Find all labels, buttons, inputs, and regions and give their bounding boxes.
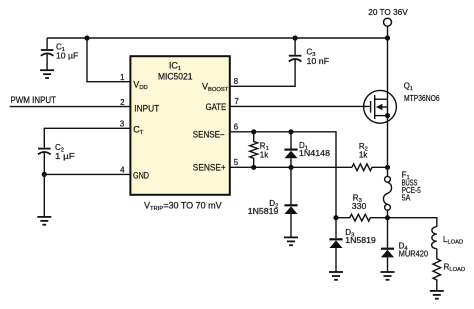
pin 6 SENSE- label <box>193 123 239 140</box>
svg-text:1k: 1k <box>359 150 368 159</box>
wire pin 8 VBOOST to C3 <box>231 59 296 86</box>
svg-text:PWM INPUT: PWM INPUT <box>11 95 57 105</box>
power terminal 20 TO 36V <box>368 7 408 38</box>
pin 1 VDD label <box>120 73 148 91</box>
svg-text:VTRIP=30 TO 70 mV: VTRIP=30 TO 70 mV <box>144 200 222 212</box>
wire pin 7 GATE to Q1 gate <box>231 105 370 107</box>
node R1 top junction <box>251 129 256 134</box>
node supply rail / drain junction <box>385 35 390 40</box>
wire C2 node to ground <box>43 174 45 217</box>
node PWM INPUT label <box>11 95 57 105</box>
svg-text:GND: GND <box>133 171 149 181</box>
svg-text:RLOAD: RLOAD <box>444 262 466 273</box>
wire pin 6 SENSE- to right column <box>231 132 337 218</box>
capacitor C2 <box>38 143 75 175</box>
svg-text:1N5819: 1N5819 <box>345 236 376 245</box>
svg-text:10 nF: 10 nF <box>307 56 330 66</box>
svg-text:1N4148: 1N4148 <box>299 149 331 158</box>
svg-text:INPUT: INPUT <box>134 104 159 114</box>
IC1 title label <box>158 61 193 82</box>
svg-text:330: 330 <box>352 201 367 211</box>
VTRIP note label <box>144 200 222 212</box>
resistor R2 <box>352 142 388 171</box>
pin 5 SENSE+ label <box>193 158 239 173</box>
svg-text:3: 3 <box>120 120 125 129</box>
op-amp U1 : IC1 MIC5021 body <box>130 56 229 195</box>
svg-text:GATE: GATE <box>206 102 227 112</box>
diode D4 MUR420 <box>381 218 429 272</box>
resistor R1 <box>250 132 270 168</box>
node F1 bottom / load junction <box>385 215 390 220</box>
node Q1 source junction <box>385 113 390 118</box>
svg-text:10 µF: 10 µF <box>56 50 78 60</box>
wire pin 3 to C2 <box>44 128 129 147</box>
inductor L_LOAD <box>432 227 464 249</box>
resistor R3 <box>336 194 388 222</box>
ground (R_LOAD) <box>430 291 444 299</box>
diode D3 1N5819 <box>329 218 376 272</box>
wire load branch <box>388 218 437 227</box>
ground (C2) <box>37 217 51 225</box>
wire pin 5 SENSE+ to R2 <box>231 166 353 168</box>
svg-text:4: 4 <box>120 166 125 175</box>
svg-text:1 µF: 1 µF <box>55 151 75 161</box>
pin 4 GND label <box>120 166 149 181</box>
pin 3 CT label <box>120 120 144 136</box>
pin 8 VBOOST label <box>202 77 239 93</box>
node C2 / GND junction <box>42 172 47 177</box>
ground (D4) <box>381 272 395 280</box>
svg-text:20 TO 36V: 20 TO 36V <box>368 7 408 17</box>
node D1 bottom junction <box>288 165 293 170</box>
capacitor C1 <box>41 38 79 70</box>
node D1 top junction <box>288 129 293 134</box>
fuse F1 BUSS PCE-5 5A <box>383 167 421 217</box>
node R2 / F1 / source junction <box>385 165 390 170</box>
svg-text:Q1: Q1 <box>404 81 413 92</box>
svg-text:2: 2 <box>120 98 125 107</box>
svg-text:SENSE+: SENSE+ <box>193 162 226 172</box>
wire pin 4 GND to C2 node <box>44 173 129 175</box>
wire top supply rail <box>47 37 387 39</box>
svg-text:8: 8 <box>234 77 239 86</box>
resistor R_LOAD <box>433 249 465 291</box>
svg-text:MUR420: MUR420 <box>399 249 429 258</box>
svg-text:1k: 1k <box>260 150 269 159</box>
svg-text:7: 7 <box>234 97 239 106</box>
capacitor C3 <box>289 38 329 66</box>
svg-text:5A: 5A <box>402 194 411 203</box>
svg-text:1: 1 <box>120 73 125 82</box>
wire VDD from rail to pin 1 <box>87 38 130 82</box>
diode D2 1N5819 <box>248 167 298 237</box>
transistor Q1 MTP36NO6 <box>364 38 440 167</box>
svg-text:5: 5 <box>234 158 239 167</box>
ground (C1) <box>40 70 54 78</box>
svg-text:6: 6 <box>234 123 239 132</box>
wire PWM input to pin 2 <box>10 106 130 108</box>
node VDD branch junction <box>84 35 89 40</box>
pin 7 GATE label <box>206 97 240 112</box>
ground (D2) <box>284 237 298 245</box>
svg-text:LLOAD: LLOAD <box>443 235 463 246</box>
node C3 branch junction <box>293 35 298 40</box>
diode D1 1N4148 <box>284 132 330 168</box>
svg-text:MIC5021: MIC5021 <box>158 71 193 81</box>
ground (D3) <box>329 272 343 280</box>
svg-text:MTP36NO6: MTP36NO6 <box>404 94 440 103</box>
svg-text:SENSE−: SENSE− <box>193 129 225 139</box>
node R3 left junction <box>333 215 338 220</box>
pin 2 INPUT label <box>120 98 160 114</box>
svg-text:1N5819: 1N5819 <box>248 207 279 216</box>
node R1 bottom junction <box>251 165 256 170</box>
